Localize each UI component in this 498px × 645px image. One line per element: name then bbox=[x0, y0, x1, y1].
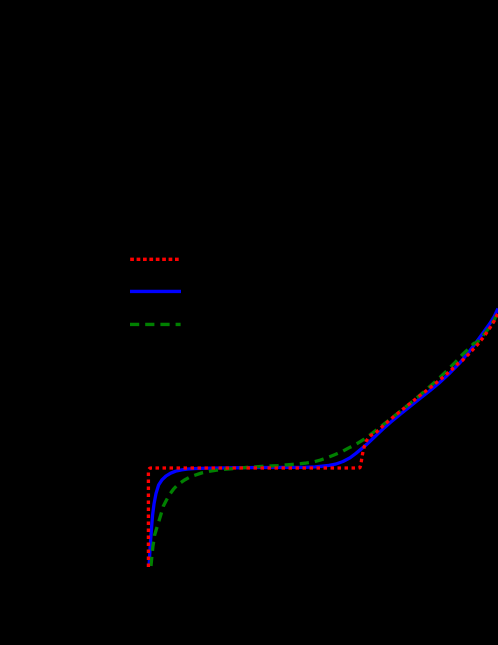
blue solid curve bbox=[149, 309, 498, 565]
green dashed curve bbox=[151, 312, 498, 566]
red dotted curve bbox=[148, 313, 498, 567]
legend green dashed sample bbox=[130, 323, 181, 326]
legend red dotted sample bbox=[130, 258, 180, 261]
legend blue solid sample bbox=[130, 290, 181, 293]
